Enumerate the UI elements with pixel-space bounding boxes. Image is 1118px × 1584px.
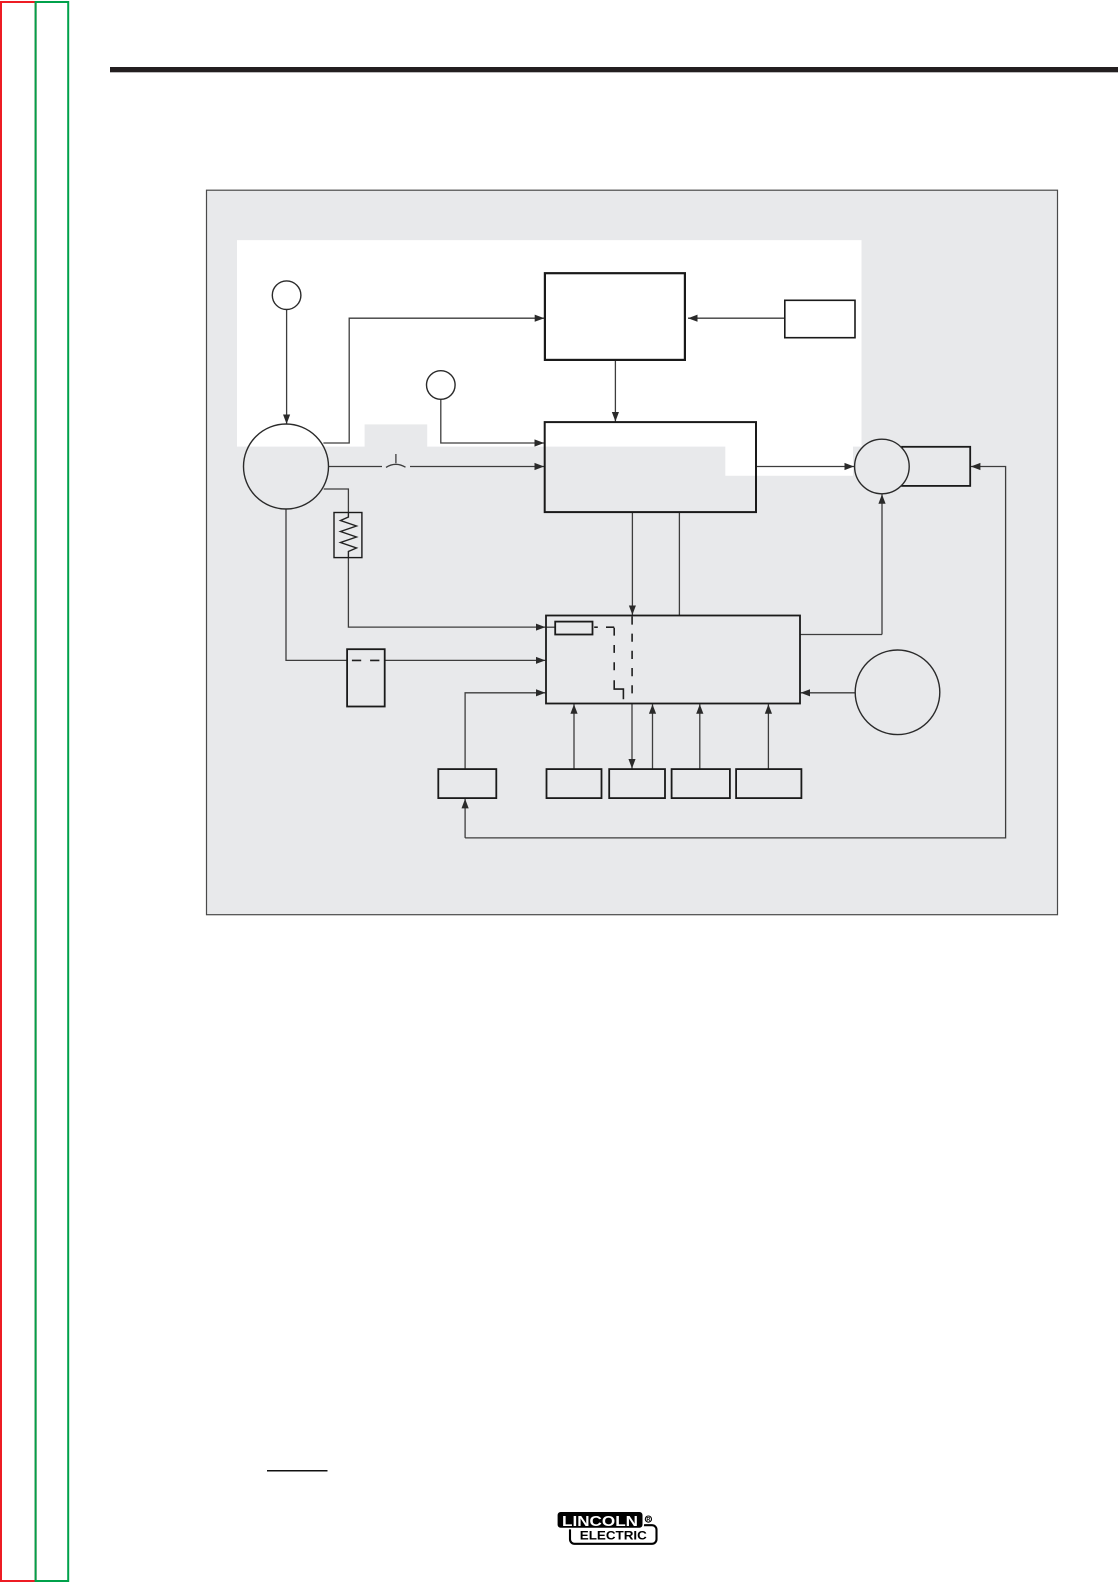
svg-text:ELECTRIC: ELECTRIC <box>580 1528 647 1542</box>
svg-text:R: R <box>646 1517 650 1523</box>
svg-text:LINCOLN: LINCOLN <box>562 1514 638 1530</box>
